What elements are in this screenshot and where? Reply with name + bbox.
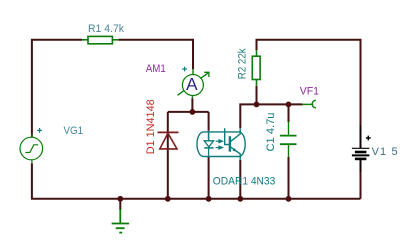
wire: ammeter bottom to junction A xyxy=(191,98,193,112)
opto coupling arrows xyxy=(216,140,223,149)
junction R2 bottom xyxy=(254,102,260,108)
wire: opto LED cathode to bottom rail xyxy=(208,157,210,199)
junction C1 bottom xyxy=(286,196,292,202)
svg-text:R2 22k: R2 22k xyxy=(237,48,249,79)
svg-text:D1 1N4148: D1 1N4148 xyxy=(145,99,157,154)
wire: VG1 top to R1 left (left rail + top rail left) xyxy=(32,40,82,137)
junction C1 top xyxy=(286,102,292,108)
wire: battery top lead xyxy=(360,125,362,148)
junction D1 bottom xyxy=(165,196,171,202)
svg-text:R1 4.7k: R1 4.7k xyxy=(88,23,124,35)
svg-text:VF1: VF1 xyxy=(300,86,319,98)
wire: junction to D1 cathode xyxy=(167,112,169,199)
resistor R1 xyxy=(82,36,119,43)
ground xyxy=(112,209,130,233)
wire: R2 top to battery plus (top rail right) xyxy=(257,40,361,125)
svg-text:V1 5: V1 5 xyxy=(372,146,398,158)
junction node A (ammeter/diode/LED) xyxy=(190,109,196,115)
capacitor C1 xyxy=(280,122,297,158)
wire: R2 bottom to node xyxy=(256,86,258,105)
wire: bottom rail xyxy=(32,163,361,199)
battery V1 xyxy=(352,148,370,159)
wire: battery minus to bottom rail xyxy=(360,160,362,173)
junction LED cathode bottom xyxy=(206,196,212,202)
wire: battery bottom to rail xyxy=(360,172,362,199)
optocoupler ODAR1 body xyxy=(197,132,245,157)
junction ground xyxy=(117,196,123,202)
plus sign V1 xyxy=(366,136,371,141)
wire: opto emitter to bottom rail xyxy=(239,160,241,199)
svg-text:AM1: AM1 xyxy=(146,63,166,75)
svg-text:C1 4.7u: C1 4.7u xyxy=(265,113,277,152)
svg-text:VG1: VG1 xyxy=(64,125,84,137)
plus sign VG1 xyxy=(37,128,42,133)
voltage pin VF1 xyxy=(303,100,316,108)
wire: node to C1 top xyxy=(288,104,290,122)
svg-text:A: A xyxy=(186,74,198,94)
wire: ground stub xyxy=(119,199,121,210)
wire: R1 right to ammeter top xyxy=(118,40,193,69)
source VG1 xyxy=(20,134,43,164)
opto LED xyxy=(204,131,213,157)
resistor R2 xyxy=(252,50,260,86)
junction emitter bottom xyxy=(237,196,243,202)
wire: branch horizontal at node A xyxy=(168,111,209,113)
opto phototransistor xyxy=(225,128,241,160)
wire: junction to opto LED anode xyxy=(208,112,210,131)
svg-text:ODAR1 4N33: ODAR1 4N33 xyxy=(213,175,275,187)
plus sign AM1 xyxy=(182,67,187,72)
ammeter AM1 xyxy=(178,69,209,98)
wire: C1 bottom to bottom rail xyxy=(288,157,290,199)
diode D1 xyxy=(158,132,179,149)
wire: opto collector up and right to VF1 node xyxy=(240,104,302,128)
